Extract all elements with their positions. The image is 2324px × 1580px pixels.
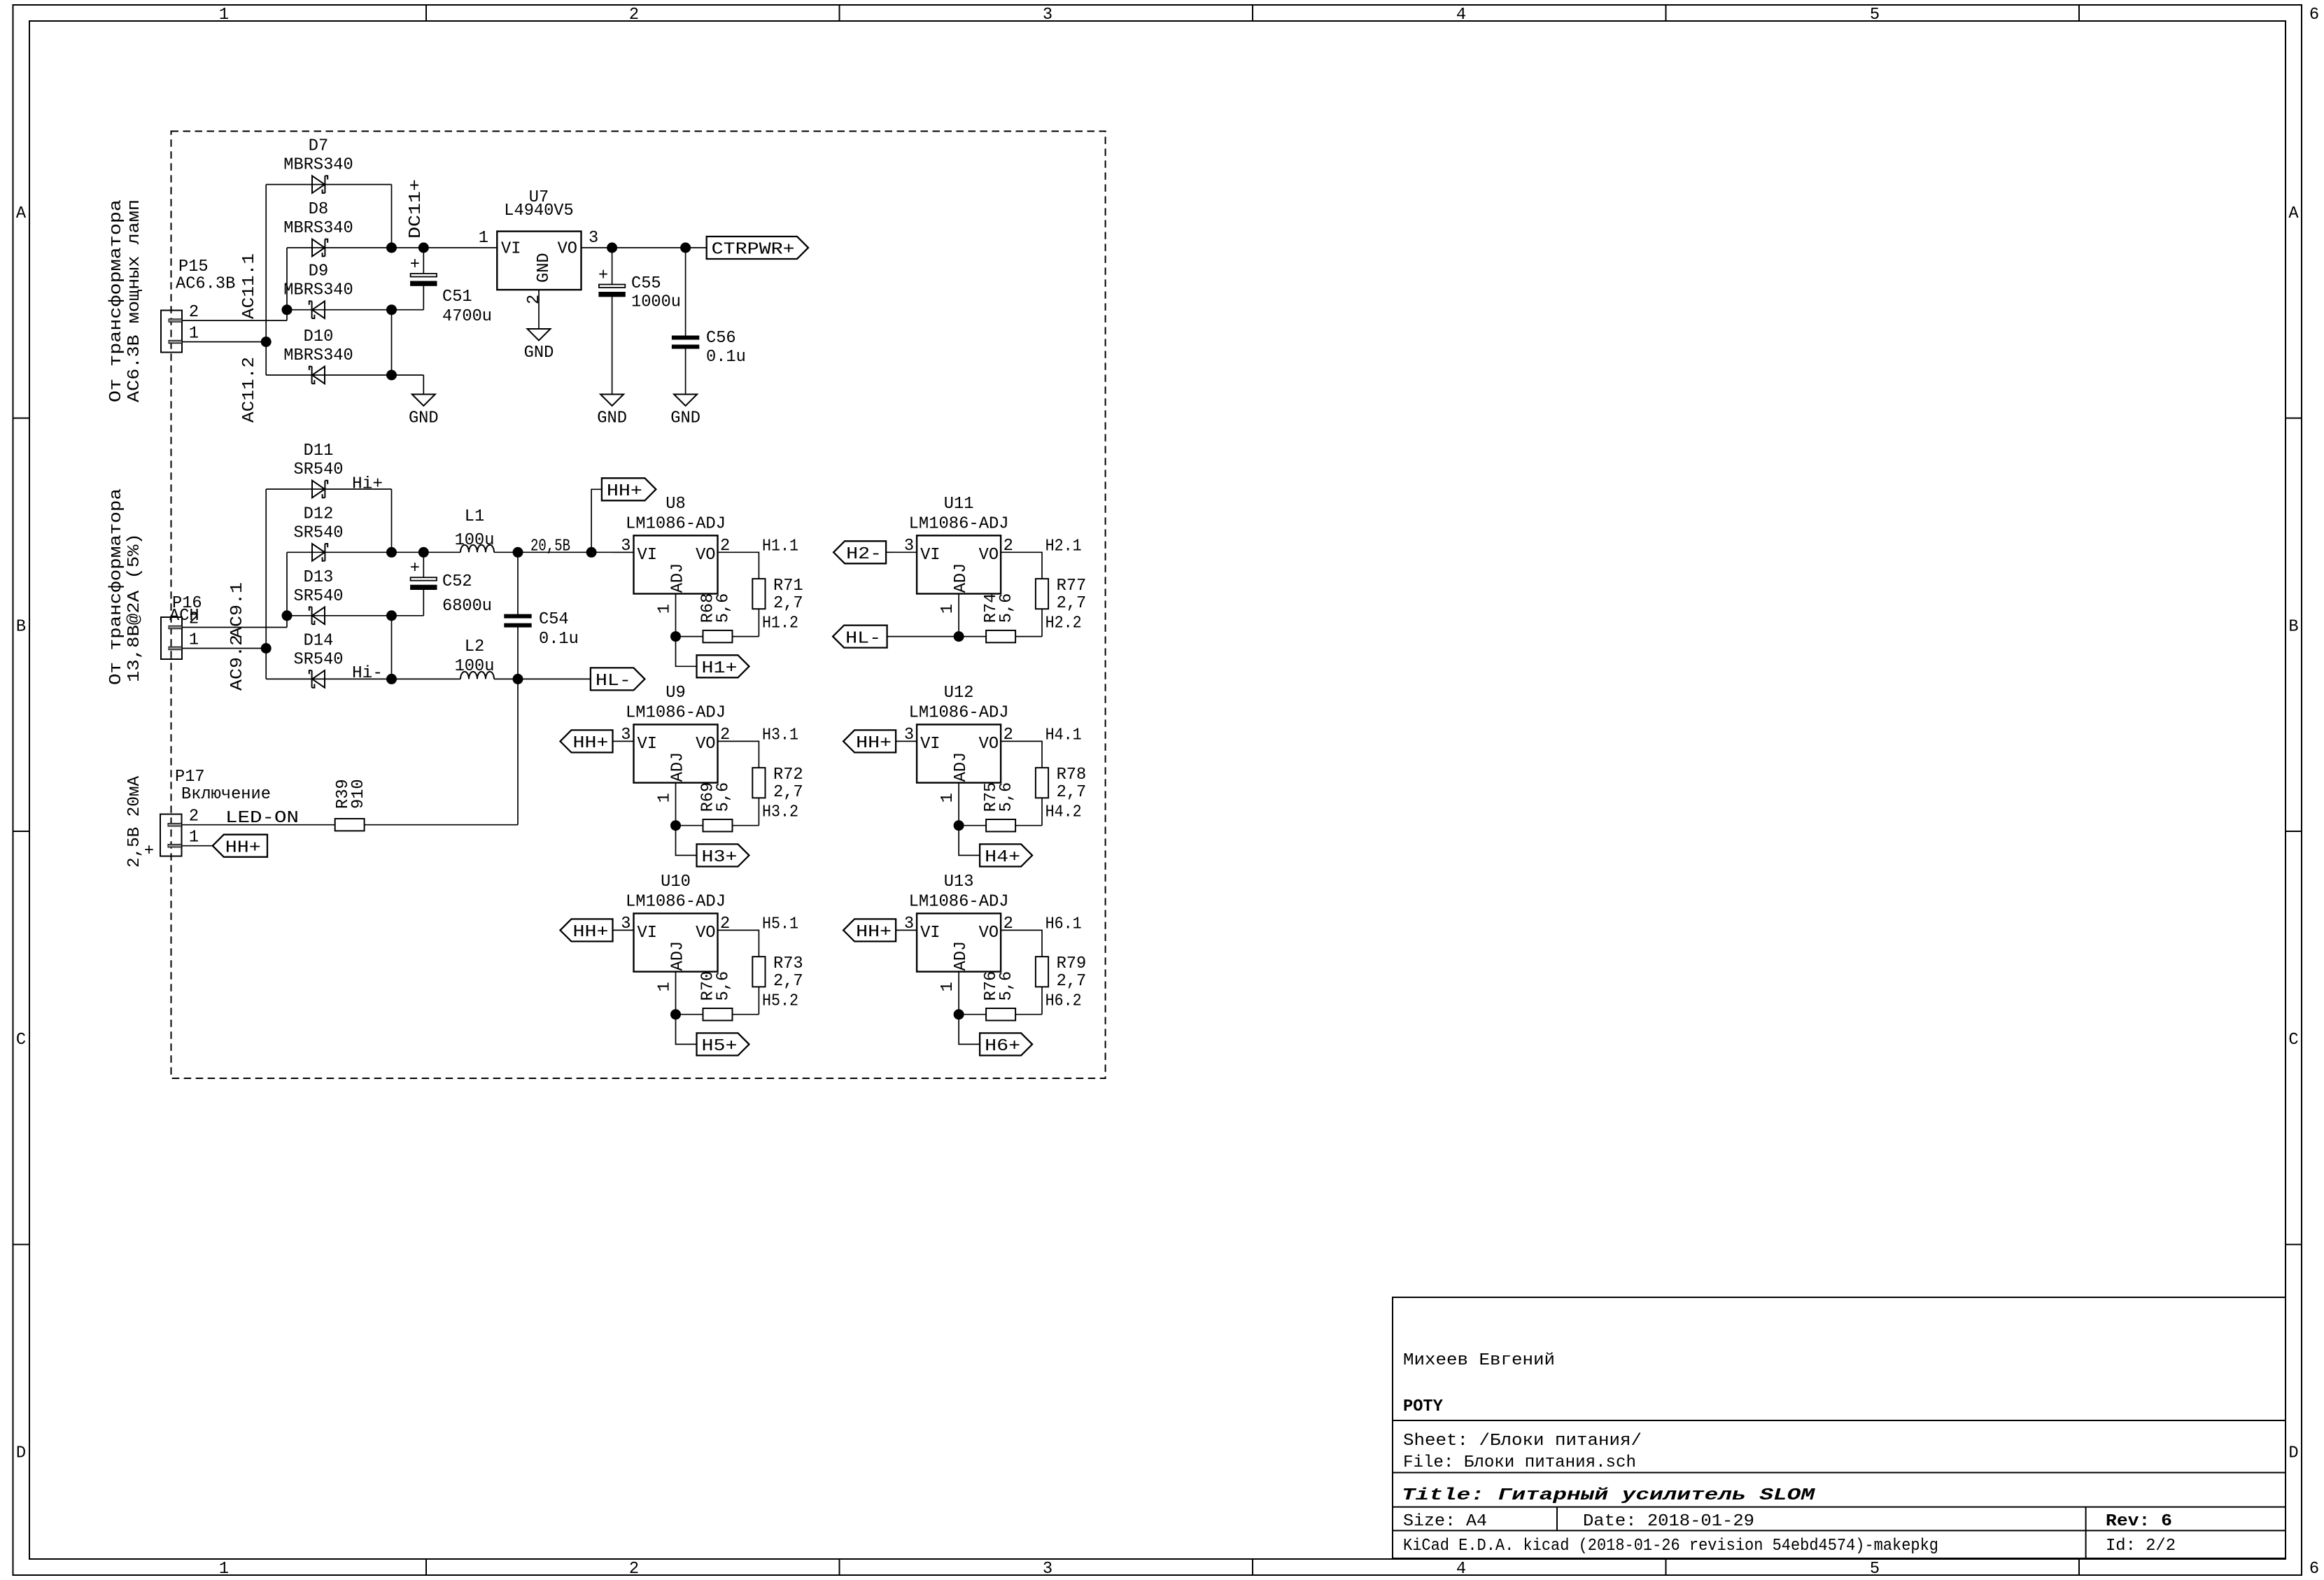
svg-text:Sheet: /Блоки питания/: Sheet: /Блоки питания/ xyxy=(1403,1432,1642,1451)
svg-text:D8: D8 xyxy=(309,200,328,219)
svg-text:SR540: SR540 xyxy=(294,460,344,479)
svg-text:H5.2: H5.2 xyxy=(762,992,798,1010)
wire U12 ADJ row xyxy=(959,825,986,826)
ground xyxy=(670,395,700,428)
resistor R68 xyxy=(699,593,733,643)
svg-text:1: 1 xyxy=(656,982,675,992)
wire C54 to LED return xyxy=(517,627,519,825)
global label HH+ at U12 xyxy=(843,730,896,753)
svg-text:VO: VO xyxy=(979,924,999,943)
svg-text:910: 910 xyxy=(349,779,368,809)
svg-text:MBRS340: MBRS340 xyxy=(283,346,353,365)
svg-text:H4+: H4+ xyxy=(985,848,1020,867)
junction HH+ node xyxy=(586,547,597,558)
wire C52 top lead xyxy=(423,552,424,577)
svg-text:ADJ: ADJ xyxy=(669,941,688,971)
inductor L2 xyxy=(455,637,495,679)
wire U11 VI stub xyxy=(886,551,896,553)
svg-text:LM1086-ADJ: LM1086-ADJ xyxy=(626,514,726,533)
svg-text:2: 2 xyxy=(525,295,544,304)
wire AC11.2 riser xyxy=(265,185,267,375)
global label H3+ xyxy=(697,844,749,867)
svg-text:H4.1: H4.1 xyxy=(1045,726,1082,745)
svg-text:AC9.2: AC9.2 xyxy=(228,635,247,691)
svg-text:R71: R71 xyxy=(773,577,803,595)
svg-text:POTY: POTY xyxy=(1403,1397,1444,1416)
junction DC11+ xyxy=(386,243,397,253)
svg-text:H6.2: H6.2 xyxy=(1045,992,1082,1010)
global label HH+ at U9 xyxy=(561,730,613,753)
svg-text:HH+: HH+ xyxy=(856,734,892,753)
resistor R79 xyxy=(1036,954,1086,991)
resistor R39 xyxy=(334,779,368,831)
wire U11 VO xyxy=(1001,552,1042,579)
column label 6 xyxy=(2309,6,2319,1579)
wire D13 to D14 xyxy=(391,616,393,679)
wire U8 H1+ lead xyxy=(676,637,697,667)
wire U9 ADJ xyxy=(675,783,677,826)
svg-text:H1+: H1+ xyxy=(702,659,738,678)
svg-text:AC11.1: AC11.1 xyxy=(240,253,259,319)
wire R39 to HL- xyxy=(365,824,518,826)
wire D12 row xyxy=(287,551,460,553)
wire U7 GND pin xyxy=(538,290,540,329)
svg-text:VO: VO xyxy=(558,240,577,259)
svg-text:Title: Гитарный усилитель SLOM: Title: Гитарный усилитель SLOM xyxy=(1402,1486,1815,1505)
svg-text:2,7: 2,7 xyxy=(773,972,803,991)
wire U10 ADJ xyxy=(675,972,677,1015)
junction AC11.2 xyxy=(261,337,272,347)
svg-text:LM1086-ADJ: LM1086-ADJ xyxy=(626,704,726,723)
svg-text:5,6: 5,6 xyxy=(997,971,1016,1001)
svg-text:Date: 2018-01-29: Date: 2018-01-29 xyxy=(1583,1512,1754,1531)
wire C54 top lead xyxy=(517,552,519,614)
row label B xyxy=(16,618,2299,637)
wire U9 ADJ row xyxy=(676,825,703,826)
resistor R70 xyxy=(699,971,733,1021)
svg-text:Size: A4: Size: A4 xyxy=(1403,1512,1487,1531)
junction GND node 2 xyxy=(386,370,397,381)
wire D10 row xyxy=(266,374,423,376)
junction U12 ADJ node xyxy=(954,820,964,831)
wire U13 ADJ row xyxy=(959,1014,986,1015)
wire HH+ lead xyxy=(591,489,602,552)
svg-text:SR540: SR540 xyxy=(294,587,344,606)
wire 20,5B to U8 VI xyxy=(494,551,634,553)
svg-text:HH+: HH+ xyxy=(225,838,261,857)
svg-text:13,8В@2А (5%): 13,8В@2А (5%) xyxy=(125,533,144,682)
svg-text:1: 1 xyxy=(189,828,199,847)
wire U12 H4.2 xyxy=(1041,798,1043,825)
resistor R69 xyxy=(699,782,733,832)
regulator U10 LM1086-ADJ xyxy=(621,873,730,992)
wire D8 row / DC11+ xyxy=(287,247,497,248)
wire D11 to D12 xyxy=(391,489,393,552)
svg-text:H6.1: H6.1 xyxy=(1045,915,1082,933)
svg-text:L4940V5: L4940V5 xyxy=(504,202,573,220)
title block frame xyxy=(1393,1297,2286,1558)
wire U11 ADJ xyxy=(958,594,959,637)
svg-text:U9: U9 xyxy=(665,684,685,703)
svg-text:GND: GND xyxy=(409,409,439,428)
wire C55 bottom lead xyxy=(612,297,613,395)
svg-text:От трансформатора: От трансформатора xyxy=(107,199,126,402)
svg-text:File: Блоки питания.sch: File: Блоки питания.sch xyxy=(1403,1453,1636,1472)
global label HH+ at U10 xyxy=(561,919,613,942)
wire U8 ADJ row xyxy=(676,636,703,637)
capacitor C56 xyxy=(672,329,745,367)
junction DC11+ C51 xyxy=(418,243,429,253)
global label H4+ xyxy=(980,844,1032,867)
resistor R71 xyxy=(752,577,803,613)
wire U10 H5.2 xyxy=(758,987,759,1014)
svg-text:100u: 100u xyxy=(455,531,495,550)
row label A xyxy=(16,204,2300,223)
wire U13 VO xyxy=(1001,930,1042,957)
svg-text:HH+: HH+ xyxy=(573,923,609,942)
svg-text:C51: C51 xyxy=(442,288,472,306)
svg-text:C52: C52 xyxy=(442,572,472,591)
svg-text:B: B xyxy=(2288,618,2298,637)
wire C56 top lead xyxy=(685,248,686,336)
svg-text:АС6.3В мощных ламп: АС6.3В мощных ламп xyxy=(125,199,144,402)
resistor R77 xyxy=(1036,577,1086,613)
junction Hi- node xyxy=(386,674,397,684)
wire LED-ON xyxy=(182,824,335,826)
resistor R78 xyxy=(1036,766,1086,802)
svg-text:HH+: HH+ xyxy=(573,734,609,753)
wire AC9.2 pin1 xyxy=(182,648,266,649)
wire U8 H1.2 row xyxy=(733,636,759,637)
svg-text:AC9.1: AC9.1 xyxy=(228,582,247,638)
svg-text:5,6: 5,6 xyxy=(714,593,733,623)
svg-text:C: C xyxy=(16,1031,26,1050)
ground xyxy=(409,395,439,428)
svg-text:3: 3 xyxy=(589,229,598,248)
svg-text:Rev: 6: Rev: 6 xyxy=(2106,1512,2172,1531)
svg-text:2,5В 20мА: 2,5В 20мА xyxy=(125,775,144,868)
svg-text:D11: D11 xyxy=(304,442,334,460)
svg-text:Включение: Включение xyxy=(181,785,271,804)
label D11 SR540 xyxy=(294,442,344,479)
svg-text:H6+: H6+ xyxy=(985,1037,1020,1056)
wire U13 VI xyxy=(896,929,917,931)
svg-text:2,7: 2,7 xyxy=(773,594,803,613)
svg-text:P17: P17 xyxy=(175,768,205,787)
svg-text:C55: C55 xyxy=(631,274,661,293)
label D12 SR540 xyxy=(294,505,344,542)
svg-text:R79: R79 xyxy=(1057,954,1087,973)
svg-text:VI: VI xyxy=(638,735,657,754)
svg-text:SR540: SR540 xyxy=(294,523,344,542)
svg-text:D12: D12 xyxy=(304,505,334,523)
wire D14 row Hi- xyxy=(266,678,460,679)
capacitor C51 xyxy=(410,255,492,326)
svg-text:LM1086-ADJ: LM1086-ADJ xyxy=(909,893,1009,912)
wire C51 bottom lead xyxy=(423,285,424,309)
global label HL- xyxy=(591,668,645,691)
wire AC11.2 pin1 xyxy=(182,341,266,343)
svg-text:6: 6 xyxy=(2309,6,2319,24)
svg-text:SR540: SR540 xyxy=(294,650,344,669)
regulator U7 L4940V5 xyxy=(479,188,598,304)
svg-text:R78: R78 xyxy=(1057,766,1087,784)
svg-text:1: 1 xyxy=(656,793,675,803)
svg-text:VI: VI xyxy=(638,546,657,565)
svg-text:5,6: 5,6 xyxy=(714,782,733,812)
svg-text:LED-ON: LED-ON xyxy=(225,809,299,828)
wire U9 H3.2 row xyxy=(733,825,759,826)
svg-text:MBRS340: MBRS340 xyxy=(283,219,353,238)
svg-text:LM1086-ADJ: LM1086-ADJ xyxy=(909,704,1009,723)
diode D10 xyxy=(309,367,325,384)
wire U9 H3+ lead xyxy=(676,826,697,856)
svg-text:1: 1 xyxy=(219,1560,229,1579)
svg-text:MBRS340: MBRS340 xyxy=(283,281,353,300)
capacitor C55 xyxy=(598,267,681,312)
svg-text:2: 2 xyxy=(189,303,199,322)
wire U12 H4.2 row xyxy=(1015,825,1042,826)
column label 2 xyxy=(629,6,639,1579)
junction AC11.1 node xyxy=(282,304,293,315)
diode D9 xyxy=(309,301,325,318)
svg-text:H3.1: H3.1 xyxy=(762,726,798,745)
wire U8 H1.2 xyxy=(758,609,759,636)
wire GND drop xyxy=(423,375,424,395)
svg-text:1000u: 1000u xyxy=(631,293,681,312)
svg-text:U13: U13 xyxy=(944,873,974,891)
svg-text:1: 1 xyxy=(938,604,957,614)
svg-text:CTRPWR+: CTRPWR+ xyxy=(712,241,795,260)
wire AC9.1 D12-D13 xyxy=(286,552,288,616)
svg-text:MBRS340: MBRS340 xyxy=(283,156,353,175)
svg-text:ADJ: ADJ xyxy=(952,941,971,971)
wire U10 VO xyxy=(718,930,759,957)
svg-text:1: 1 xyxy=(479,229,488,248)
svg-text:От трансформатора: От трансформатора xyxy=(107,488,126,685)
wire D7 row xyxy=(266,184,391,185)
svg-text:VO: VO xyxy=(696,924,715,943)
wire HL- out xyxy=(494,678,591,679)
svg-text:R73: R73 xyxy=(773,954,803,973)
svg-text:U10: U10 xyxy=(661,873,691,891)
wire AC9.1 pin2 xyxy=(182,627,287,628)
svg-text:3: 3 xyxy=(1043,6,1052,24)
diode D8 xyxy=(312,239,328,257)
svg-text:P15: P15 xyxy=(178,258,209,276)
wire AC11.1 D8-D9 xyxy=(286,248,288,310)
svg-text:ADJ: ADJ xyxy=(669,563,688,593)
svg-text:2,7: 2,7 xyxy=(773,783,803,802)
label D9 MBRS340 xyxy=(283,262,353,300)
svg-text:VI: VI xyxy=(638,924,657,943)
resistor R74 xyxy=(982,593,1016,643)
svg-text:C56: C56 xyxy=(706,329,736,348)
wire U13 H6+ lead xyxy=(959,1015,980,1045)
svg-text:0.1u: 0.1u xyxy=(539,630,579,649)
svg-text:100u: 100u xyxy=(455,657,495,676)
wire U12 ADJ xyxy=(958,783,959,826)
svg-text:KiCad E.D.A. kicad (2018-01-2: KiCad E.D.A. kicad (2018-01-26 revision … xyxy=(1403,1537,1938,1556)
wire VO output CTRPWR+ xyxy=(582,247,707,248)
svg-text:R72: R72 xyxy=(773,766,803,784)
wire U9 H3.2 xyxy=(758,798,759,825)
svg-text:A: A xyxy=(2288,204,2299,223)
svg-text:D14: D14 xyxy=(304,631,334,650)
row reference ticks xyxy=(13,418,2302,1245)
svg-text:H2.2: H2.2 xyxy=(1045,614,1082,633)
wire U12 VO xyxy=(1001,741,1042,768)
svg-text:ADJ: ADJ xyxy=(669,752,688,782)
svg-text:GND: GND xyxy=(535,253,554,283)
label D7 MBRS340 xyxy=(283,137,353,175)
svg-text:H1.2: H1.2 xyxy=(762,614,798,633)
column label 3 xyxy=(1043,6,1052,1579)
junction Hi+ node xyxy=(386,547,397,558)
label D10 MBRS340 xyxy=(283,327,353,365)
label D14 SR540 xyxy=(294,631,344,669)
svg-text:A: A xyxy=(16,204,27,223)
svg-text:C54: C54 xyxy=(539,610,569,629)
diode D13 xyxy=(309,607,325,625)
svg-text:H2.1: H2.1 xyxy=(1045,537,1082,556)
regulator U9 LM1086-ADJ xyxy=(621,684,730,803)
svg-text:5,6: 5,6 xyxy=(997,782,1016,812)
wire U8 VI xyxy=(612,551,634,553)
connector P17 xyxy=(160,768,271,856)
svg-text:5,6: 5,6 xyxy=(714,971,733,1001)
wire U9 VI xyxy=(612,740,634,742)
svg-text:ADJ: ADJ xyxy=(952,563,971,593)
regulator U12 LM1086-ADJ xyxy=(904,684,1013,803)
svg-text:VO: VO xyxy=(696,546,715,565)
svg-text:5: 5 xyxy=(1870,6,1880,24)
svg-text:20,5B: 20,5B xyxy=(530,537,570,556)
junction U10 ADJ node xyxy=(670,1009,681,1020)
resistor R72 xyxy=(752,766,803,802)
junction C56 node xyxy=(680,243,691,253)
svg-text:6800u: 6800u xyxy=(442,597,492,616)
global label CTRPWR+ xyxy=(707,237,808,260)
junction U13 ADJ node xyxy=(954,1009,964,1020)
svg-text:H1.1: H1.1 xyxy=(762,537,798,556)
svg-text:D: D xyxy=(2288,1444,2298,1463)
svg-text:U8: U8 xyxy=(665,495,685,514)
svg-text:R77: R77 xyxy=(1057,577,1087,595)
row label C xyxy=(16,1031,2299,1050)
junction AC9.1 node xyxy=(282,610,293,621)
wire U8 VO xyxy=(718,552,759,579)
ground xyxy=(597,395,627,428)
column label 5 xyxy=(1870,6,1880,1579)
wire D7 to D8 xyxy=(391,185,393,248)
svg-text:2: 2 xyxy=(629,6,639,24)
svg-text:4700u: 4700u xyxy=(442,307,492,326)
wire U13 H6.2 row xyxy=(1015,1014,1042,1015)
wire C52 bottom lead xyxy=(423,590,424,616)
svg-text:2,7: 2,7 xyxy=(1057,972,1087,991)
svg-text:H3+: H3+ xyxy=(702,848,738,867)
svg-text:4: 4 xyxy=(1456,1560,1466,1579)
svg-text:1: 1 xyxy=(219,6,229,24)
global label H6+ xyxy=(980,1033,1032,1056)
svg-text:GND: GND xyxy=(670,409,700,428)
svg-text:VO: VO xyxy=(979,735,999,754)
svg-text:VI: VI xyxy=(920,924,940,943)
wire U13 H6.2 xyxy=(1041,987,1043,1014)
global label HL- at U11 xyxy=(833,626,887,649)
wire AC9.2 riser xyxy=(265,489,267,679)
svg-text:B: B xyxy=(16,618,26,637)
junction C54 node xyxy=(513,547,523,558)
svg-text:1: 1 xyxy=(656,604,675,614)
note: От трансформатора АС6.3В мощных ламп xyxy=(107,199,144,402)
svg-text:D10: D10 xyxy=(304,327,334,346)
svg-text:2: 2 xyxy=(189,807,199,826)
junction HL- node xyxy=(513,674,523,684)
svg-text:Id: 2/2: Id: 2/2 xyxy=(2106,1537,2176,1556)
svg-text:3: 3 xyxy=(1043,1560,1052,1579)
global label H5+ xyxy=(697,1033,749,1056)
svg-text:VI: VI xyxy=(501,240,521,259)
svg-text:U12: U12 xyxy=(944,684,974,703)
svg-text:H4.2: H4.2 xyxy=(1045,803,1082,821)
svg-text:D: D xyxy=(16,1444,26,1463)
svg-text:Михеев Евгений: Михеев Евгений xyxy=(1403,1351,1555,1370)
svg-text:Hi+: Hi+ xyxy=(352,475,383,494)
svg-text:5,6: 5,6 xyxy=(997,593,1016,623)
wire D13 row xyxy=(287,615,423,616)
resistor R76 xyxy=(982,971,1016,1021)
svg-text:+: + xyxy=(144,842,154,861)
label D8 MBRS340 xyxy=(283,200,353,238)
junction U11 ADJ node xyxy=(954,631,964,642)
junction U9 ADJ node xyxy=(670,820,681,831)
svg-text:LM1086-ADJ: LM1086-ADJ xyxy=(909,514,1009,533)
svg-text:AC11.2: AC11.2 xyxy=(240,357,259,423)
wire U11 VI xyxy=(896,551,917,553)
svg-text:4: 4 xyxy=(1456,6,1466,24)
diode D12 xyxy=(312,544,328,561)
ground xyxy=(524,329,554,362)
note: От трансформатора 13,8В@2А (5%) xyxy=(107,488,144,685)
svg-text:LM1086-ADJ: LM1086-ADJ xyxy=(626,893,726,912)
global label HH+ xyxy=(602,478,656,501)
svg-text:ACH: ACH xyxy=(169,607,199,626)
regulator U13 LM1086-ADJ xyxy=(904,873,1013,992)
svg-text:H3.2: H3.2 xyxy=(762,803,798,821)
resistor R73 xyxy=(752,954,803,991)
junction U8 ADJ node xyxy=(670,631,681,642)
svg-text:DC11+: DC11+ xyxy=(407,179,425,239)
wire U10 VI xyxy=(612,929,634,931)
junction C55 node xyxy=(607,243,617,253)
wire C55 top lead xyxy=(612,248,613,285)
column label 4 xyxy=(1456,6,1466,1579)
regulator U11 LM1086-ADJ xyxy=(904,495,1013,614)
column label 1 xyxy=(219,6,229,1579)
svg-text:ADJ: ADJ xyxy=(952,752,971,782)
wire C51 top lead xyxy=(423,248,424,274)
svg-text:HH+: HH+ xyxy=(607,482,642,501)
wire U12 VI xyxy=(896,740,917,742)
capacitor C54 xyxy=(505,610,579,649)
wire AC11.1 riser xyxy=(286,310,288,320)
junction Hi- link xyxy=(386,610,397,621)
svg-text:HH+: HH+ xyxy=(856,923,892,942)
junction GND node xyxy=(386,304,397,315)
global label HH+ at P17 xyxy=(213,835,267,858)
